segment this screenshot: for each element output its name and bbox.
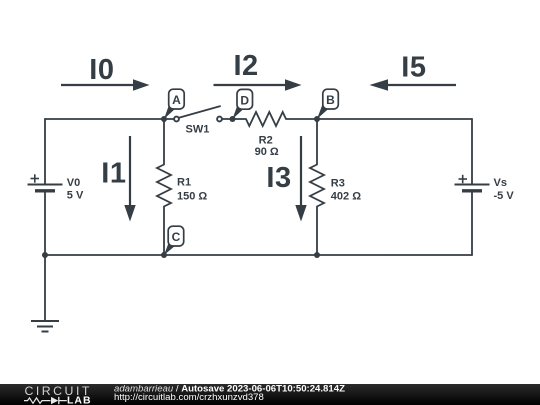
- node C label: [164, 226, 184, 255]
- R3 value label: [331, 177, 361, 202]
- junction dot bottom-left: [42, 252, 48, 258]
- footer bar: [0, 384, 540, 405]
- switch SW1: [174, 106, 222, 121]
- resistor R1: [157, 165, 171, 207]
- svg-text:B: B: [326, 93, 335, 107]
- svg-text:http://circuitlab.com/crzhxunz: http://circuitlab.com/crzhxunzvd378: [114, 392, 264, 403]
- svg-text:A: A: [172, 93, 181, 107]
- wire R1 bottom lead: [163, 207, 165, 256]
- wire right rail upper: [471, 119, 473, 184]
- wire left rail upper: [44, 119, 46, 184]
- wire right rail lower: [471, 192, 473, 256]
- R2 value label: [255, 135, 279, 158]
- svg-text:I3: I3: [266, 162, 291, 194]
- node B dot: [314, 116, 320, 122]
- resistor R2: [246, 112, 286, 126]
- node D dot: [230, 116, 236, 122]
- svg-text:I1: I1: [101, 157, 126, 189]
- node B label: [317, 89, 338, 119]
- svg-text:D: D: [240, 93, 249, 107]
- wire R1 top lead: [163, 119, 165, 165]
- wire left rail lower: [44, 192, 46, 256]
- svg-text:150 Ω: 150 Ω: [177, 190, 207, 202]
- svg-text:R1: R1: [177, 176, 191, 188]
- svg-text:Vs: Vs: [494, 177, 507, 189]
- svg-text:I5: I5: [401, 51, 426, 83]
- logo symbol diode bar: [59, 397, 67, 404]
- wire R3 top lead: [316, 119, 318, 165]
- node A dot: [161, 116, 167, 122]
- logo symbol diode: [51, 397, 58, 404]
- node A label: [164, 89, 184, 119]
- current arrow I5: [370, 79, 457, 90]
- svg-text:402 Ω: 402 Ω: [331, 190, 361, 202]
- svg-text:R2: R2: [259, 135, 273, 147]
- Vs value label: [494, 177, 515, 202]
- logo symbol wire and zigzag: [24, 398, 51, 403]
- svg-text:90 Ω: 90 Ω: [255, 146, 279, 158]
- node C dot: [161, 252, 167, 258]
- wire top-left horizontal A to left rail: [45, 118, 174, 120]
- voltage source V0: [28, 174, 63, 191]
- current arrow I3: [295, 136, 306, 222]
- wire R2 to B to right rail: [286, 118, 472, 120]
- svg-text:SW1: SW1: [186, 124, 210, 136]
- wire ground lead: [44, 255, 46, 321]
- junction dot bottom R3: [314, 252, 320, 258]
- wire R3 bottom lead: [316, 207, 318, 256]
- V0 value label: [67, 177, 84, 202]
- svg-text:-5 V: -5 V: [494, 190, 515, 202]
- voltage source Vs: [455, 175, 490, 191]
- svg-text:R3: R3: [331, 177, 345, 189]
- ground: [31, 321, 59, 332]
- R1 value label: [177, 176, 207, 202]
- svg-text:V0: V0: [67, 177, 80, 189]
- current arrow I1: [124, 136, 135, 222]
- svg-text:I2: I2: [234, 50, 259, 82]
- current arrow I2: [214, 79, 302, 90]
- node D label: [233, 89, 253, 119]
- svg-text:5 V: 5 V: [67, 190, 84, 202]
- wire bottom rail: [45, 254, 472, 256]
- resistor R3: [310, 165, 324, 207]
- wire switch to R2: [223, 118, 247, 120]
- svg-text:LAB: LAB: [67, 395, 92, 405]
- current arrow I0: [61, 79, 150, 90]
- svg-text:C: C: [172, 230, 181, 244]
- svg-text:I0: I0: [89, 54, 114, 86]
